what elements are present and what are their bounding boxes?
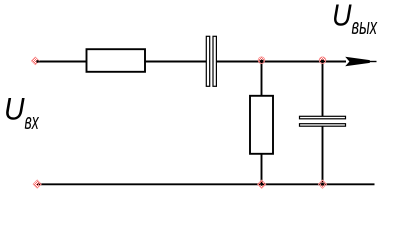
capacitor C2 (shunt) top plate — [300, 116, 346, 119]
terminal marker bottom-left (red diamond) — [33, 180, 41, 188]
node B junction marker (red circle + dot) — [319, 57, 326, 64]
resistor R2 (shunt, vertical) — [250, 96, 273, 154]
svg-text:вых: вых — [352, 14, 378, 39]
capacitor C2 (shunt) bottom plate — [300, 124, 346, 127]
output arrow — [345, 57, 370, 67]
node D junction marker bottom (red diamond + dot) — [318, 180, 326, 188]
capacitor C1 (series) left plate — [206, 36, 209, 86]
wire top: input terminal to resistor R1 — [37, 61, 87, 63]
resistor R1 (series, horizontal) — [87, 49, 146, 72]
svg-text:вх: вх — [25, 109, 40, 134]
capacitor C1 (series) right plate — [213, 36, 216, 86]
wire bottom rail — [37, 183, 375, 185]
label U vx — [4, 90, 39, 134]
wire: node B down to capacitor C2 — [322, 62, 324, 117]
node A junction marker (red circle + dot) — [258, 57, 265, 64]
wire: node A down to resistor R2 — [261, 62, 263, 97]
svg-text:U: U — [332, 0, 352, 33]
wire: capacitor C1 to output arrow — [216, 61, 346, 63]
node C junction marker bottom (red diamond + dot) — [258, 180, 266, 188]
wire: resistor R1 to capacitor C1 — [145, 61, 206, 63]
wire: resistor R2 down to bottom rail — [261, 154, 263, 185]
wire: capacitor C2 down to bottom rail — [322, 126, 324, 184]
svg-text:U: U — [4, 90, 25, 126]
label U vyx — [332, 0, 378, 39]
terminal marker top-left (red diamond) — [32, 57, 40, 65]
